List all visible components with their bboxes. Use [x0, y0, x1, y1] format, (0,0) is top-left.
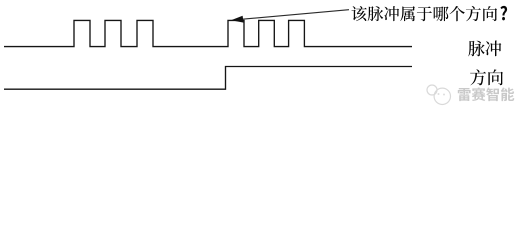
wire annotation leader line — [241, 10, 349, 20]
wire direction waveform — [4, 67, 412, 90]
node watermark dots — [438, 93, 446, 96]
node watermark logo circles — [427, 85, 450, 105]
node arrowhead — [231, 16, 244, 23]
node question text 该脉冲属于哪个方向？ — [352, 6, 508, 21]
wire pulse waveform — [4, 20, 412, 46]
node label 方向 — [470, 69, 503, 85]
node label 脉冲 — [468, 41, 501, 57]
node watermark text 雷赛智能 — [458, 87, 515, 101]
